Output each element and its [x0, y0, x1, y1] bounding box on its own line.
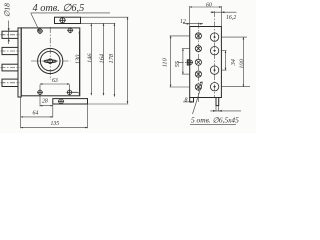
svg-text:110: 110 [161, 57, 168, 67]
svg-text:8: 8 [185, 97, 188, 103]
svg-text:100: 100 [238, 58, 245, 68]
svg-text:135: 135 [51, 121, 60, 127]
svg-text:146: 146 [87, 53, 94, 63]
svg-text:5 отв. ∅6,5х45: 5 отв. ∅6,5х45 [191, 116, 239, 125]
svg-text:64: 64 [33, 109, 39, 116]
svg-text:28: 28 [42, 99, 48, 105]
svg-text:60: 60 [206, 3, 212, 9]
svg-text:164: 164 [98, 53, 105, 63]
svg-text:130: 130 [75, 54, 82, 64]
svg-text:12: 12 [180, 19, 186, 25]
svg-text:∅18: ∅18 [2, 3, 11, 17]
svg-text:16,2: 16,2 [226, 15, 236, 21]
svg-text:63: 63 [52, 78, 58, 84]
svg-text:4 отв. ∅6,5: 4 отв. ∅6,5 [33, 3, 85, 14]
svg-text:178: 178 [108, 53, 115, 63]
svg-text:34: 34 [230, 58, 237, 66]
svg-text:55: 55 [174, 61, 181, 67]
